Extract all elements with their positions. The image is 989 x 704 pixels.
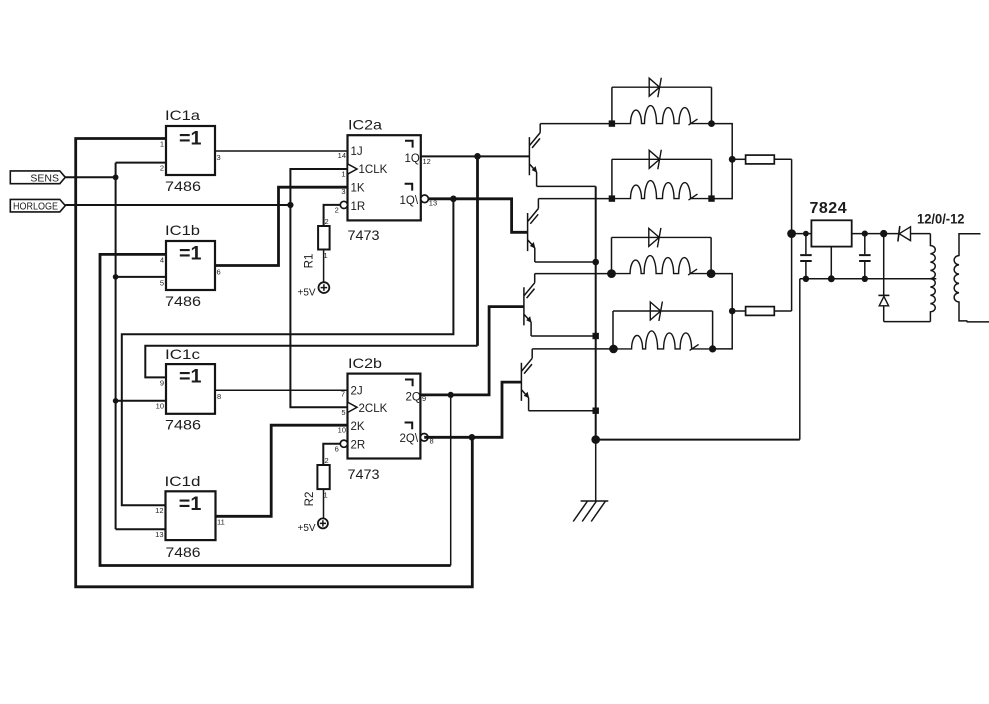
IC2b pin6 reset bubble xyxy=(340,440,347,447)
svg-text:SENS: SENS xyxy=(30,172,59,184)
svg-text:12: 12 xyxy=(155,506,163,515)
wire IC2a 1Qbar to T2 base xyxy=(428,199,527,233)
connector HORLOGE xyxy=(10,199,65,212)
svg-text:2K: 2K xyxy=(351,421,365,433)
wire 2Q feedback to IC1b pin4 xyxy=(100,254,451,565)
node 24V main xyxy=(787,229,796,238)
svg-text:IC1b: IC1b xyxy=(165,222,200,238)
svg-text:=1: =1 xyxy=(179,129,202,150)
wire winding1 frame xyxy=(612,87,712,123)
svg-text:+5V: +5V xyxy=(298,523,316,534)
node winding3 right xyxy=(707,269,716,278)
node C1 top xyxy=(803,231,809,237)
IC2a pin13 output bubble xyxy=(421,195,429,203)
node SENS-IC1c10 xyxy=(113,398,119,404)
svg-text:9: 9 xyxy=(160,379,164,388)
diode D3 xyxy=(612,228,712,248)
svg-text:4: 4 xyxy=(160,256,164,265)
svg-text:3: 3 xyxy=(341,187,345,196)
wire R1 to +5V xyxy=(323,250,325,283)
svg-text:IC1c: IC1c xyxy=(165,346,200,362)
wire 2Qbar feedback to IC1a pin1 xyxy=(76,139,473,587)
svg-text:2Q: 2Q xyxy=(406,392,421,404)
node winding4 right xyxy=(709,345,716,352)
wire IC1a pin3 to IC2a 1J xyxy=(215,150,348,152)
svg-text:1K: 1K xyxy=(351,183,365,195)
node HORLOGE junction xyxy=(287,202,293,208)
node C2 bottom xyxy=(862,276,868,282)
svg-text:=1: =1 xyxy=(179,494,202,515)
wire T2 emitter to bus xyxy=(535,261,596,263)
svg-text:7: 7 xyxy=(341,390,345,399)
wire T3 emitter to bus xyxy=(531,335,596,337)
node SENS-IC1b5 xyxy=(113,274,119,280)
ground xyxy=(573,440,608,522)
node C2 top xyxy=(862,231,868,237)
transistor T4 xyxy=(521,349,532,411)
node winding3 left xyxy=(607,269,616,278)
regulator 7824 xyxy=(810,200,852,279)
svg-text:=1: =1 xyxy=(179,367,202,388)
wire IC2b pin6 reset to R2 xyxy=(323,444,340,465)
svg-text:1R: 1R xyxy=(351,201,366,213)
supply +5V for R2 xyxy=(298,518,328,534)
transistor T3 xyxy=(524,274,535,336)
svg-text:2Q\: 2Q\ xyxy=(400,433,419,445)
JK flip-flop IC2b xyxy=(335,355,434,482)
supply +5V for R1 xyxy=(298,282,330,298)
resistor R3 xyxy=(732,155,791,164)
wire windings 3-4 to node xyxy=(711,274,732,349)
wire T3 collector to winding3 xyxy=(535,273,612,275)
node winding1 left xyxy=(609,120,615,126)
transformer secondary winding xyxy=(954,234,989,322)
svg-text:IC2b: IC2b xyxy=(348,355,382,371)
wire windings 1-2 to node xyxy=(712,124,733,199)
diode D4 xyxy=(613,302,713,322)
wire T4 emitter to bus xyxy=(529,410,596,412)
wire T1 collector to winding1 xyxy=(540,123,612,125)
svg-text:1: 1 xyxy=(160,140,164,149)
node 1Qbar junction xyxy=(450,196,457,203)
net SENS vertical x=115.6 xyxy=(115,163,117,530)
svg-text:14: 14 xyxy=(338,151,346,160)
svg-text:7486: 7486 xyxy=(165,417,201,433)
node winding2 right xyxy=(708,195,714,201)
node C1 bottom xyxy=(803,276,809,282)
node T2 emitter xyxy=(592,259,599,266)
wire 1Q feedback to IC1c pin9 xyxy=(476,156,479,345)
winding L4 xyxy=(613,331,713,351)
svg-text:10: 10 xyxy=(156,402,164,411)
JK flip-flop IC2a xyxy=(335,117,438,244)
svg-text:2R: 2R xyxy=(351,440,366,452)
wire IC2b 2Q to T3 base xyxy=(420,307,524,395)
svg-text:8: 8 xyxy=(217,392,221,401)
svg-text:10: 10 xyxy=(338,426,346,435)
node ground junction xyxy=(591,435,600,444)
wire IC1d pin11 to IC2b 2K xyxy=(216,425,348,516)
IC2a pin2 reset bubble xyxy=(340,201,347,208)
diode D6 xyxy=(878,234,889,322)
svg-text:7473: 7473 xyxy=(348,466,380,482)
wire IC2b 2Qbar to T4 base xyxy=(424,382,521,437)
node T3 emitter xyxy=(593,333,599,339)
svg-text:=1: =1 xyxy=(179,244,202,265)
wire SENS to IC1b pin5 xyxy=(116,276,166,278)
svg-text:2: 2 xyxy=(335,206,339,215)
svg-text:7486: 7486 xyxy=(165,293,201,309)
node R3 input xyxy=(729,156,736,163)
svg-text:11: 11 xyxy=(217,518,225,527)
svg-text:5: 5 xyxy=(341,408,345,417)
node winding2 left xyxy=(609,195,615,201)
node 7824 common xyxy=(828,275,835,282)
IC2b pin8 output bubble xyxy=(420,434,428,442)
wire HORLOGE vertical to IC2a CLK and IC2b CLK xyxy=(290,169,347,407)
wire T4 collector to winding4 xyxy=(532,348,614,350)
svg-text:1: 1 xyxy=(341,170,345,179)
svg-text:+5V: +5V xyxy=(298,288,316,299)
wire D6 to transformer bottom xyxy=(884,321,931,323)
wire IC2a pin2 reset to R1 xyxy=(324,205,341,226)
node D5 branch xyxy=(880,230,887,237)
wire IC2a 1Q to T1 base xyxy=(421,155,530,157)
winding L1 xyxy=(612,106,712,126)
wire SENS to IC1d pin13 xyxy=(116,528,166,530)
connector SENS xyxy=(10,171,65,185)
IC2a edge mark 1Qbar xyxy=(405,184,413,191)
svg-text:7486: 7486 xyxy=(165,178,201,194)
wire SENS to node xyxy=(65,176,115,178)
resistor R4 xyxy=(732,307,791,316)
node R4 input xyxy=(729,308,736,315)
diode D2 xyxy=(612,150,712,170)
XOR gate IC1b xyxy=(160,222,221,309)
node winding4 left xyxy=(609,345,618,354)
wire T2 collector to winding2 xyxy=(538,198,612,200)
svg-text:IC1d: IC1d xyxy=(165,473,201,489)
transformer primary winding xyxy=(930,234,935,322)
svg-text:1Q: 1Q xyxy=(405,153,420,165)
wire 24V rail xyxy=(792,233,931,235)
winding L2 xyxy=(612,181,712,201)
svg-text:IC1a: IC1a xyxy=(165,107,200,123)
svg-text:7486: 7486 xyxy=(166,544,201,560)
capacitor C2 xyxy=(859,234,871,279)
wire T1 emitter to bus xyxy=(537,185,596,187)
svg-text:2: 2 xyxy=(325,217,329,226)
node winding1 right xyxy=(708,120,715,127)
XOR gate IC1d xyxy=(155,473,225,560)
svg-text:R1: R1 xyxy=(304,254,316,269)
wire 0V rail xyxy=(800,278,937,280)
svg-text:1J: 1J xyxy=(351,146,363,158)
svg-text:6: 6 xyxy=(335,445,339,454)
wire IC1b pin6 to IC2a 1K xyxy=(215,187,348,265)
node 2Qbar junction xyxy=(469,434,476,441)
node T4 emitter xyxy=(593,408,599,414)
wire SENS to IC1a pin2 xyxy=(116,162,166,164)
wire 0V rail to return bus xyxy=(799,279,801,440)
svg-text:2: 2 xyxy=(325,456,329,465)
transistor T1 xyxy=(529,124,540,187)
resistor R1 xyxy=(304,217,330,268)
svg-text:IC2a: IC2a xyxy=(348,117,382,133)
svg-text:13: 13 xyxy=(155,530,163,539)
wire IC1c pin8 to IC2b 2J xyxy=(215,389,347,391)
XOR gate IC1c xyxy=(156,346,222,433)
svg-text:5: 5 xyxy=(160,279,164,288)
IC2b edge mark 2Qbar xyxy=(405,423,413,430)
svg-text:1Q\: 1Q\ xyxy=(400,195,419,207)
wire winding2 frame xyxy=(612,159,712,198)
svg-text:3: 3 xyxy=(217,153,221,162)
svg-text:2CLK: 2CLK xyxy=(359,403,388,415)
svg-text:2: 2 xyxy=(160,164,164,173)
svg-text:7824: 7824 xyxy=(810,200,848,217)
node 2Q junction xyxy=(448,392,454,398)
svg-text:7473: 7473 xyxy=(348,227,380,243)
svg-text:12: 12 xyxy=(423,157,431,166)
wire winding4 frame xyxy=(613,311,713,349)
resistor R2 xyxy=(304,456,330,506)
svg-text:R2: R2 xyxy=(304,492,316,507)
wire winding3 frame xyxy=(612,237,712,273)
svg-text:HORLOGE: HORLOGE xyxy=(13,201,58,213)
node SENS junction xyxy=(113,174,119,180)
wire supply vertical to 24V node xyxy=(791,159,793,311)
svg-text:2J: 2J xyxy=(351,386,363,398)
XOR gate IC1a xyxy=(160,107,221,194)
IC2b edge mark 2Q xyxy=(405,380,413,387)
IC2a clock wedge pin1 xyxy=(348,164,358,174)
IC2b clock wedge pin5 xyxy=(348,402,358,412)
winding L3 xyxy=(612,256,712,276)
transistor T2 xyxy=(528,199,539,262)
node 1Q junction xyxy=(474,153,481,160)
svg-text:6: 6 xyxy=(217,268,221,277)
svg-text:12/0/-12: 12/0/-12 xyxy=(917,211,965,227)
wire 1Qbar feedback to IC1d pin12 xyxy=(122,199,454,506)
wire bus to supply return xyxy=(596,439,800,441)
diode D5 xyxy=(898,226,911,242)
svg-text:1CLK: 1CLK xyxy=(359,164,388,176)
wire R2 to +5V xyxy=(323,489,325,518)
IC2a edge mark 1Q xyxy=(405,141,413,148)
wire HORLOGE to clock node xyxy=(65,204,290,206)
wire SENS to IC1c pin10 xyxy=(116,400,166,402)
emitter bus xyxy=(595,186,597,439)
diode D1 xyxy=(612,78,712,98)
capacitor C1 xyxy=(800,234,812,279)
